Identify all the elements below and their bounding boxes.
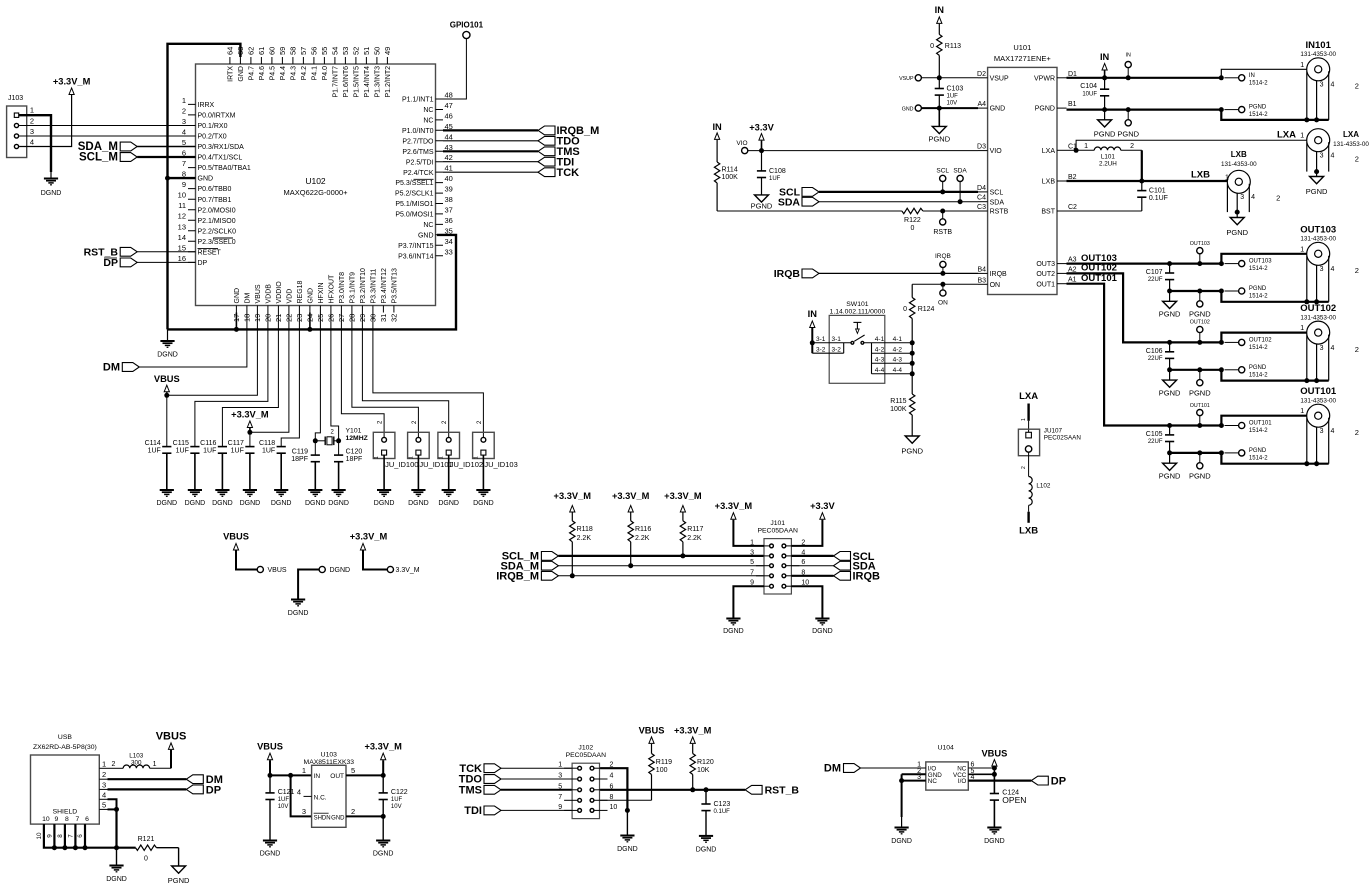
svg-text:P3.7/INT15: P3.7/INT15 — [398, 243, 434, 250]
svg-text:3: 3 — [1320, 152, 1324, 159]
svg-text:RST_B: RST_B — [765, 785, 800, 797]
svg-text:JU_ID101: JU_ID101 — [419, 460, 452, 469]
svg-text:5: 5 — [182, 138, 186, 147]
svg-text:NC: NC — [423, 222, 433, 229]
svg-text:31: 31 — [379, 314, 388, 322]
connector OUT103 131-4353-00 — [1300, 224, 1336, 265]
testpoint OUT102 — [1190, 320, 1210, 343]
wire J101 pin10 to DGND — [791, 586, 822, 618]
svg-text:P4.0: P4.0 — [322, 66, 329, 81]
svg-text:L101: L101 — [1101, 153, 1116, 160]
wire J103 pin2 to U102 pin3 — [19, 125, 195, 127]
svg-text:OUT103: OUT103 — [1190, 241, 1210, 247]
testpoint DGND — [288, 566, 350, 616]
svg-text:RSTB: RSTB — [990, 209, 1009, 216]
svg-text:P3.4/INT12: P3.4/INT12 — [381, 268, 388, 304]
svg-text:PGND: PGND — [1249, 448, 1267, 454]
testpoint OUT102 1514-2 — [1225, 338, 1273, 352]
svg-text:DGND: DGND — [473, 500, 494, 507]
testpoint OUT103 — [1190, 241, 1210, 264]
svg-text:16: 16 — [178, 254, 186, 263]
resistor R122 0 — [902, 208, 978, 232]
power +3.3V_M at J101 pin1 — [715, 501, 764, 546]
svg-text:3-1: 3-1 — [816, 336, 826, 343]
testpoint IN — [1125, 53, 1131, 81]
svg-text:P3.6/INT14: P3.6/INT14 — [398, 253, 434, 260]
svg-text:1514-2: 1514-2 — [1249, 266, 1268, 272]
svg-text:10: 10 — [178, 191, 186, 200]
resistor R120 10K — [690, 744, 714, 790]
svg-text:+3.3V: +3.3V — [810, 501, 835, 511]
svg-text:10: 10 — [42, 816, 50, 823]
svg-text:54: 54 — [331, 47, 340, 55]
USB right pins 1-5 — [99, 759, 107, 809]
svg-text:C119: C119 — [292, 449, 308, 456]
svg-text:2: 2 — [1355, 428, 1359, 437]
svg-text:OUT101: OUT101 — [1081, 273, 1118, 284]
svg-text:18PF: 18PF — [291, 456, 308, 463]
svg-text:1UF: 1UF — [148, 448, 161, 455]
wire pin17 to bus — [235, 313, 237, 330]
power +3.3V_M at R120 — [674, 725, 712, 743]
svg-text:B3: B3 — [977, 277, 986, 284]
svg-text:0: 0 — [903, 306, 907, 313]
wire pin19 VBUS — [167, 313, 258, 396]
capacitor C103 1UF 10V — [935, 78, 964, 108]
junction C104 PGND — [1102, 107, 1107, 112]
testpoint SDA — [953, 168, 967, 205]
svg-text:P1.0/INT0: P1.0/INT0 — [402, 128, 434, 135]
svg-text:59: 59 — [278, 47, 287, 55]
svg-text:P3.1/INT9: P3.1/INT9 — [350, 272, 357, 304]
svg-text:1UF: 1UF — [231, 448, 244, 455]
ground DGND JU_ID100 — [374, 490, 395, 507]
flag TCK at J102 — [459, 763, 572, 775]
svg-text:4: 4 — [1331, 82, 1335, 89]
svg-text:4-1: 4-1 — [875, 336, 885, 343]
svg-text:P2.5/TDI: P2.5/TDI — [406, 159, 434, 166]
svg-text:53: 53 — [341, 47, 350, 55]
svg-text:L102: L102 — [1036, 483, 1051, 490]
junction PGND row corner — [1219, 107, 1224, 112]
svg-text:2.2K: 2.2K — [687, 535, 702, 542]
svg-text:2: 2 — [102, 770, 106, 779]
svg-text:P5.3/SSEL1: P5.3/SSEL1 — [395, 180, 433, 187]
svg-text:GND: GND — [234, 288, 241, 304]
resistor R114 100K — [714, 162, 738, 211]
power +3.3V_M at R118 — [554, 491, 592, 521]
svg-text:10V: 10V — [278, 804, 289, 810]
svg-text:1: 1 — [302, 766, 306, 775]
svg-text:4-4: 4-4 — [875, 367, 885, 374]
svg-text:51: 51 — [362, 47, 371, 55]
svg-text:OUT101: OUT101 — [1190, 403, 1210, 409]
svg-text:C123: C123 — [714, 801, 731, 808]
svg-text:1514-2: 1514-2 — [1249, 372, 1268, 378]
power +3.3V_M at R116 — [612, 491, 650, 521]
net label OUT101 — [1081, 273, 1118, 284]
svg-text:OUT1: OUT1 — [1036, 281, 1055, 288]
svg-text:14: 14 — [178, 233, 186, 242]
flag SCL_M at J101 — [502, 551, 764, 563]
svg-text:9: 9 — [55, 816, 59, 823]
svg-text:1: 1 — [558, 762, 562, 769]
svg-text:3: 3 — [1240, 194, 1244, 201]
wire GND bottom bus — [168, 235, 457, 330]
svg-text:58: 58 — [289, 47, 298, 55]
svg-text:22UF: 22UF — [1148, 356, 1163, 362]
svg-text:5: 5 — [558, 783, 562, 790]
ground DGND C117 — [240, 490, 261, 507]
wire OUT2 — [1067, 273, 1170, 342]
svg-text:131-4353-00: 131-4353-00 — [1300, 236, 1336, 243]
svg-text:SHIELD: SHIELD — [53, 809, 78, 816]
svg-text:IRRX: IRRX — [198, 102, 215, 109]
wire J103 pin1 to DGND — [19, 115, 51, 172]
svg-text:P5.0/MOSI1: P5.0/MOSI1 — [395, 212, 433, 219]
svg-text:1: 1 — [30, 106, 34, 115]
svg-text:P0.4/TX1/SCL: P0.4/TX1/SCL — [198, 155, 243, 162]
testpoint OUT101 — [1190, 403, 1210, 426]
U102 top pin names — [228, 66, 393, 98]
svg-text:U101: U101 — [1013, 43, 1031, 52]
flag RST_B at J102 — [745, 785, 799, 797]
svg-text:VDDB: VDDB — [266, 284, 273, 304]
wire R114 to R122 — [717, 210, 902, 212]
svg-text:P2.0/MOSI0: P2.0/MOSI0 — [198, 207, 236, 214]
svg-text:P4.6: P4.6 — [259, 66, 266, 81]
svg-text:DGND: DGND — [240, 500, 261, 507]
svg-text:IN: IN — [712, 122, 722, 132]
svg-text:1: 1 — [182, 96, 186, 105]
testpoint 3.3V_M — [350, 531, 420, 574]
USB shield pin numbers rotated — [36, 832, 84, 840]
label pin 2 JU_ID102 — [442, 420, 448, 424]
svg-text:1: 1 — [1300, 62, 1304, 69]
svg-text:3: 3 — [1320, 345, 1324, 352]
connector J103 — [7, 95, 27, 158]
ground PGND C107 — [1159, 291, 1181, 319]
svg-text:SDA: SDA — [953, 168, 967, 175]
svg-text:8: 8 — [57, 834, 64, 838]
svg-text:P3.0/INT8: P3.0/INT8 — [339, 272, 346, 304]
svg-text:LXA: LXA — [1042, 148, 1056, 155]
svg-text:C118: C118 — [259, 440, 275, 447]
OUT101 shell legs — [1304, 418, 1334, 467]
svg-text:4-2: 4-2 — [875, 346, 885, 353]
svg-text:4: 4 — [30, 138, 34, 147]
svg-text:IN: IN — [808, 309, 818, 319]
svg-text:+3.3V_M: +3.3V_M — [350, 531, 388, 541]
wire PGND to IN101 shell — [1221, 110, 1328, 120]
svg-text:1: 1 — [1021, 418, 1027, 421]
svg-text:C108: C108 — [769, 168, 786, 175]
svg-text:R120: R120 — [697, 759, 714, 766]
svg-text:3-2: 3-2 — [831, 347, 841, 354]
label 2 LXA — [1355, 155, 1359, 164]
wire U102 to C118 — [281, 313, 299, 447]
svg-text:OUT3: OUT3 — [1036, 261, 1055, 268]
svg-text:9: 9 — [46, 834, 53, 838]
net label LXA at JU107 — [1019, 391, 1038, 402]
U102 right pin names — [395, 97, 434, 261]
svg-text:10K: 10K — [697, 767, 710, 774]
power IN at R114 — [712, 122, 722, 162]
connector LXA 131-4353-00 — [1300, 129, 1369, 152]
svg-text:B1: B1 — [1068, 101, 1077, 108]
svg-text:C114: C114 — [145, 440, 161, 447]
svg-text:IN: IN — [1100, 52, 1110, 62]
label 2 IN101 — [1355, 82, 1359, 91]
svg-text:P0.2/TX0: P0.2/TX0 — [198, 134, 227, 141]
U102 top pin stubs 64-49 — [230, 57, 388, 64]
capacitor C119 18PF — [291, 441, 320, 490]
svg-text:OUT: OUT — [330, 773, 344, 780]
svg-text:L103: L103 — [129, 752, 144, 759]
wire J101 pin9 to DGND — [733, 586, 764, 618]
svg-text:DGND: DGND — [212, 500, 233, 507]
switch SW101 1.14.002.111/0000 — [812, 301, 902, 383]
wire ON row — [912, 283, 978, 285]
svg-text:OUT101: OUT101 — [1300, 386, 1337, 397]
svg-text:7: 7 — [76, 816, 80, 823]
svg-text:10V: 10V — [947, 101, 958, 107]
jumper JU107 PEC02SAAN — [1018, 428, 1081, 456]
svg-text:1: 1 — [153, 761, 157, 768]
connector IN101 131-4353-00 — [1300, 40, 1336, 81]
svg-text:3: 3 — [750, 549, 754, 556]
svg-text:LXA: LXA — [1343, 130, 1359, 139]
wire LXB row — [1067, 170, 1228, 184]
ground DGND C124 — [984, 828, 1005, 846]
USB shield pin numbers top — [42, 816, 89, 823]
testpoint PGND 1514-2 OUT103 — [1225, 286, 1269, 300]
svg-text:OUT101: OUT101 — [1249, 421, 1272, 427]
capacitor C104 10UF — [1080, 78, 1109, 110]
junction HFXOUT — [336, 438, 341, 443]
power VBUS at U103 — [257, 742, 283, 776]
svg-text:LXB: LXB — [1042, 179, 1056, 186]
ground DGND C123 — [696, 836, 717, 853]
svg-text:2: 2 — [1021, 466, 1027, 469]
svg-text:R119: R119 — [656, 759, 672, 766]
svg-text:LXB: LXB — [1191, 170, 1210, 181]
junction HFXIN — [313, 438, 318, 443]
wire GND pin8 stub — [168, 177, 196, 179]
svg-text:P1.1/INT1: P1.1/INT1 — [402, 97, 434, 104]
svg-text:R121: R121 — [138, 836, 155, 843]
regulator U103 MAX8511EXK33 — [304, 751, 355, 827]
wire C101 to BST — [1067, 210, 1142, 212]
ground DGND C115 — [185, 490, 206, 507]
U102 right pin numbers 48-33 — [445, 91, 453, 257]
svg-text:C107: C107 — [1146, 269, 1163, 276]
svg-text:4-3: 4-3 — [893, 356, 903, 363]
svg-text:3: 3 — [1320, 82, 1324, 89]
svg-text:ZX62RD-AB-5P8(30): ZX62RD-AB-5P8(30) — [33, 744, 97, 751]
wire VBUS to U103 IN — [268, 773, 312, 778]
svg-text:P5.2/SCLK1: P5.2/SCLK1 — [395, 191, 434, 198]
svg-text:C3: C3 — [977, 204, 986, 211]
svg-text:4-3: 4-3 — [875, 356, 885, 363]
svg-text:DGND: DGND — [696, 846, 717, 853]
svg-text:62: 62 — [247, 47, 256, 55]
svg-text:+3.3V_M: +3.3V_M — [231, 410, 269, 420]
svg-text:P3.3/INT11: P3.3/INT11 — [371, 269, 378, 304]
svg-text:131-4353-00: 131-4353-00 — [1300, 398, 1336, 405]
svg-text:DM: DM — [103, 362, 120, 374]
svg-text:4: 4 — [182, 127, 186, 136]
capacitor C114 1UF — [145, 440, 172, 490]
power VBUS at USB — [156, 730, 187, 768]
svg-text:15: 15 — [178, 243, 186, 252]
svg-text:P2.1/MISO0: P2.1/MISO0 — [198, 218, 236, 225]
svg-text:VBUS: VBUS — [981, 748, 1007, 758]
svg-text:+3.3V_M: +3.3V_M — [364, 742, 402, 752]
wire U103 OUT — [346, 773, 386, 778]
svg-text:C122: C122 — [391, 789, 408, 796]
ground PGND C103 — [928, 108, 950, 143]
svg-text:32: 32 — [390, 314, 399, 322]
ground PGND LXA — [1306, 172, 1328, 196]
svg-text:7: 7 — [558, 794, 562, 801]
testpoint OUT101 1514-2 — [1225, 421, 1273, 435]
svg-text:P0.6/TBB0: P0.6/TBB0 — [198, 186, 232, 193]
flag TMS at J102 — [459, 785, 572, 797]
flag SCL right — [791, 551, 874, 563]
flag SCL_M — [79, 152, 195, 164]
svg-text:9: 9 — [182, 180, 186, 189]
flag SDA right — [791, 561, 875, 573]
svg-text:11: 11 — [178, 201, 186, 210]
svg-text:131-4353-00: 131-4353-00 — [1300, 51, 1336, 58]
wire USB pin5 — [108, 807, 120, 812]
svg-text:IN: IN — [935, 5, 945, 15]
svg-text:GND: GND — [308, 288, 315, 304]
svg-text:C4: C4 — [977, 195, 986, 202]
svg-text:57: 57 — [299, 47, 308, 55]
svg-text:6: 6 — [85, 816, 89, 823]
svg-text:IN101: IN101 — [1306, 40, 1332, 51]
svg-text:P1.4/INT4: P1.4/INT4 — [364, 66, 371, 98]
svg-text:P0.0/IRTXM: P0.0/IRTXM — [198, 113, 236, 120]
svg-text:HFXIN: HFXIN — [318, 283, 325, 304]
svg-text:12MHZ: 12MHZ — [346, 435, 368, 442]
ground DGND C114 — [156, 490, 177, 507]
svg-text:DGND: DGND — [305, 500, 326, 507]
wire OUT101 to connector pin1 — [1221, 416, 1306, 426]
svg-text:48: 48 — [445, 91, 453, 100]
svg-text:0: 0 — [930, 43, 934, 50]
svg-text:131-4353-00: 131-4353-00 — [1221, 161, 1257, 168]
svg-text:LXB: LXB — [1019, 526, 1038, 537]
svg-text:P1.3/INT3: P1.3/INT3 — [375, 66, 382, 98]
ground DGND C122 — [373, 841, 394, 858]
power IN at C104 — [1100, 52, 1110, 80]
wire VPWR row — [1067, 77, 1222, 79]
wire pin25 HFXIN — [315, 313, 320, 441]
wire U102 to JU_ID103 — [373, 313, 484, 438]
wire U104 DP — [968, 779, 1031, 781]
svg-text:55: 55 — [320, 47, 329, 55]
capacitor C118 1UF — [259, 440, 286, 490]
testpoint IN 1514-2 — [1224, 73, 1268, 87]
svg-text:10UF: 10UF — [1082, 92, 1097, 98]
wire SW101 4-3 — [872, 361, 915, 366]
svg-text:1: 1 — [374, 456, 380, 459]
svg-text:P4.2: P4.2 — [301, 66, 308, 81]
svg-text:64: 64 — [226, 47, 235, 55]
svg-text:2: 2 — [182, 106, 186, 115]
svg-text:8: 8 — [65, 816, 69, 823]
svg-text:4: 4 — [1331, 266, 1335, 273]
svg-text:IRQB: IRQB — [774, 268, 801, 280]
svg-text:J103: J103 — [8, 95, 23, 102]
wire U102 to JU_ID102 — [362, 313, 448, 438]
svg-text:IN: IN — [314, 773, 321, 780]
svg-text:2.2K: 2.2K — [635, 535, 650, 542]
ground PGND R121 — [168, 848, 190, 885]
flag SCL — [779, 187, 978, 199]
power IN at SW101 — [808, 309, 818, 353]
junction RSTB — [940, 209, 945, 214]
svg-text:3-2: 3-2 — [816, 347, 826, 354]
svg-text:1: 1 — [1300, 133, 1304, 140]
svg-text:C116: C116 — [200, 440, 216, 447]
svg-text:P4.4: P4.4 — [280, 66, 287, 81]
svg-text:50: 50 — [373, 47, 382, 55]
ground DGND J101 pin9 — [723, 619, 744, 636]
wire U102 to JU_ID101 — [352, 313, 419, 438]
ground PGND R115 — [901, 436, 923, 456]
svg-text:PGND: PGND — [1249, 105, 1267, 111]
svg-text:VBUS: VBUS — [257, 742, 283, 752]
svg-text:N.C.: N.C. — [314, 794, 327, 801]
svg-text:PGND: PGND — [1189, 388, 1211, 397]
svg-text:VBUS: VBUS — [639, 725, 665, 735]
svg-text:IRQB_M: IRQB_M — [496, 571, 539, 583]
svg-text:DGND: DGND — [723, 628, 744, 635]
svg-text:GND: GND — [198, 176, 214, 183]
connector OUT101 131-4353-00 — [1300, 386, 1337, 427]
flag IRQB_M at J101 — [496, 571, 764, 583]
power VBUS at R119 — [639, 725, 665, 743]
flag SDA_M — [78, 141, 196, 153]
svg-text:PGND: PGND — [1035, 106, 1055, 113]
svg-text:P4.1: P4.1 — [312, 66, 319, 81]
testpoint OUT103 1514-2 — [1225, 259, 1273, 273]
ground DGND C116 — [212, 490, 233, 507]
wire PGND row OUT103 — [1167, 289, 1224, 294]
svg-text:7: 7 — [182, 159, 186, 168]
ground DGND U104 — [891, 817, 912, 845]
svg-text:DGND: DGND — [156, 500, 177, 507]
svg-text:P2.7/TDO: P2.7/TDO — [402, 138, 434, 145]
wire OUT102 row — [1167, 340, 1224, 345]
svg-text:DP: DP — [198, 260, 208, 267]
resistor R116 2.2K — [628, 521, 651, 568]
svg-text:PGND: PGND — [1094, 129, 1116, 138]
resistor R113 0 — [930, 34, 961, 77]
jumper JU_ID100 — [373, 432, 418, 469]
label pin 2 JU_ID101 — [412, 420, 418, 424]
svg-text:1: 1 — [1225, 174, 1229, 181]
svg-text:D4: D4 — [977, 185, 986, 192]
svg-text:TDI: TDI — [464, 805, 482, 817]
wire PGND to shell OUT103 — [1221, 291, 1328, 302]
svg-text:4: 4 — [610, 773, 614, 780]
svg-text:300: 300 — [131, 759, 142, 766]
